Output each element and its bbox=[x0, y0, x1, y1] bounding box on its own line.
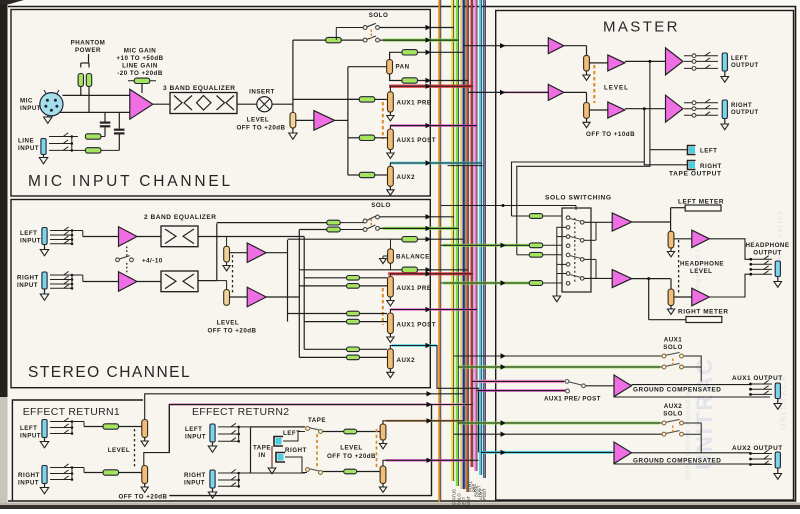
wire ER1 right out elbow bbox=[144, 405, 170, 466]
wire to master right fader bbox=[564, 91, 587, 93]
jack ER2 right input bbox=[210, 470, 215, 488]
page margins bbox=[8, 0, 800, 6]
wire aux2 solo row 2 bbox=[454, 433, 663, 435]
resistor mic aux1 pre feed bbox=[348, 98, 360, 100]
marker pen green aux2 solo row 1 bbox=[459, 422, 660, 425]
svg-text:LEVEL: LEVEL bbox=[108, 447, 130, 454]
fader headphone level right bbox=[670, 279, 672, 289]
wire tape upper to resistor bbox=[323, 431, 344, 433]
jack ER1 right input bbox=[42, 466, 47, 484]
wire stereo aux2 out to bus elbow bbox=[390, 346, 478, 453]
capacitor C2 bbox=[118, 112, 120, 128]
svg-text:EFFECT RETURN2: EFFECT RETURN2 bbox=[192, 406, 289, 418]
switch link dashes stereo solo bbox=[370, 219, 372, 227]
op-amp mic channel amp U2 bbox=[314, 111, 335, 131]
gang link dashed ER2 level bbox=[376, 429, 378, 469]
wire ER2 top row to bus bbox=[432, 404, 473, 406]
svg-text:AUX2 OUTPUT: AUX2 OUTPUT bbox=[732, 445, 783, 452]
wire stereo status row to bus bbox=[380, 216, 454, 218]
ground below stereo left jack bbox=[44, 245, 46, 250]
svg-text:LEFT: LEFT bbox=[185, 426, 202, 433]
bus LEFT pale band bbox=[460, 0, 462, 489]
svg-text:RIGHT: RIGHT bbox=[17, 275, 39, 282]
ground below headphone right fader bbox=[670, 306, 672, 310]
switch mic solo lower bbox=[363, 38, 367, 42]
wire master left to big amp bbox=[625, 60, 666, 62]
EFFECT RETURN2 box bbox=[169, 405, 431, 453]
wire aux1 pre row to switch bbox=[472, 380, 565, 382]
svg-text:3 BAND EQUALIZER: 3 BAND EQUALIZER bbox=[163, 85, 235, 92]
wire to ER2 fader upper bbox=[357, 431, 380, 433]
wire solo row direct bbox=[441, 205, 577, 207]
svg-text:RIGHT: RIGHT bbox=[184, 472, 206, 479]
bus STATUS (yellow) bbox=[451, 0, 453, 481]
svg-text:OUTPUT: OUTPUT bbox=[731, 110, 759, 116]
wire mic aux1 post out to bus bbox=[390, 126, 477, 129]
resistor mic aux1 post feed bbox=[348, 137, 360, 139]
svg-text:AUX1 POST: AUX1 POST bbox=[397, 137, 437, 144]
svg-text:LEFT: LEFT bbox=[20, 425, 37, 432]
fader stereo level right bbox=[224, 290, 230, 306]
marker pen magenta master right input bbox=[500, 91, 548, 93]
gang link dashed (mic aux) bbox=[382, 102, 384, 139]
switch ER1 right contacts bbox=[50, 467, 72, 469]
switch tape lower bbox=[306, 468, 310, 472]
svg-text:LINE GAIN: LINE GAIN bbox=[122, 63, 158, 70]
bus RIGHT (dark/orange) bbox=[466, 0, 468, 492]
jack master left output bbox=[722, 53, 727, 71]
gang link stereo level bbox=[232, 255, 234, 295]
jack tape in right bbox=[276, 453, 285, 463]
wire amp2 out to send node bbox=[335, 119, 348, 121]
svg-text:OFF TO +20dB: OFF TO +20dB bbox=[236, 125, 285, 132]
solo switching contacts bbox=[566, 216, 570, 220]
ground below ER2 right jack bbox=[212, 488, 214, 492]
svg-text:INPUT: INPUT bbox=[18, 480, 39, 487]
op-amp solo right amp bbox=[612, 270, 632, 288]
marker pen red stereo aux1 pre row bbox=[388, 272, 473, 275]
svg-text:SOLO: SOLO bbox=[663, 344, 683, 351]
ground below stereo aux1 post bbox=[389, 334, 391, 338]
ground below mic aux1 post bbox=[389, 150, 391, 154]
svg-text:RIGHT: RIGHT bbox=[285, 447, 307, 454]
wire aux1 solo join bbox=[684, 356, 701, 381]
jack aux2 output contacts bbox=[750, 453, 772, 455]
wire balanced pair to amp bbox=[63, 94, 131, 96]
svg-text:LEFT: LEFT bbox=[731, 56, 748, 62]
fader AUX1 POST (mic) bbox=[388, 129, 394, 150]
svg-text:INPUT: INPUT bbox=[185, 434, 206, 441]
wire solo logic drop bbox=[575, 206, 577, 211]
ground below mic fader bbox=[292, 128, 294, 133]
svg-text:LEVEL: LEVEL bbox=[247, 117, 269, 124]
wire solo box out left bbox=[584, 221, 612, 223]
svg-text:OFF TO +20dB: OFF TO +20dB bbox=[327, 453, 376, 460]
svg-text:AUX1: AUX1 bbox=[664, 337, 683, 344]
wire solo feed (mic) bbox=[293, 39, 326, 41]
wire stereo right row to bus bbox=[418, 269, 469, 271]
svg-text:MIC: MIC bbox=[20, 98, 33, 105]
wire aux2 solo row 1 bbox=[458, 422, 662, 424]
equalizer 2-band left block bbox=[161, 226, 198, 247]
ground below headphone jack bbox=[777, 277, 779, 282]
svg-text:OUTPUT: OUTPUT bbox=[731, 63, 759, 69]
wire mic solo row to bus (green) bbox=[383, 38, 458, 41]
wire phantom feed bbox=[88, 54, 90, 63]
ground below ER1 right jack bbox=[44, 484, 46, 488]
bus SOLO (green) bbox=[456, 0, 458, 486]
op-amp master right in bbox=[548, 84, 564, 100]
switch AUX1 PRE/POST bbox=[565, 380, 569, 384]
svg-text:POST: POST bbox=[482, 488, 487, 500]
svg-text:AUX1 PRE: AUX1 PRE bbox=[397, 285, 432, 292]
svg-text:LEFT: LEFT bbox=[700, 148, 717, 155]
wire headphone right out bbox=[709, 274, 750, 297]
fader ER2 level lower bbox=[380, 466, 386, 484]
wire pan left to LEFT bus bbox=[418, 51, 464, 53]
EFFECT RETURN1 box bbox=[12, 400, 143, 501]
fader AUX1 PRE (mic) bbox=[388, 92, 394, 112]
switch aux2 solo lower bbox=[662, 432, 666, 436]
switch stereo right contacts bbox=[50, 274, 72, 276]
wire aux1 post row to switch bbox=[476, 390, 565, 392]
wire aux1 amp out bbox=[632, 384, 751, 386]
wire tape right jack join bbox=[285, 457, 307, 473]
gang link ER1 level bbox=[134, 429, 136, 468]
ground below right output jack bbox=[724, 119, 726, 125]
insert point bbox=[257, 97, 272, 112]
wire phantom to lines bbox=[80, 87, 82, 96]
ground below ER1 left jack bbox=[44, 438, 46, 442]
svg-text:POWER: POWER bbox=[75, 47, 101, 54]
fader AUX2 (stereo) bbox=[388, 349, 394, 369]
svg-text:OFF TO +20dB: OFF TO +20dB bbox=[207, 328, 256, 335]
junction master right tape tap bbox=[643, 107, 646, 110]
ground below ER2 lower fader bbox=[382, 484, 384, 488]
gang link dashed master level bbox=[593, 65, 595, 103]
solo switching gang dashes bbox=[574, 218, 576, 283]
wire pan bottom out bbox=[390, 74, 403, 81]
marker pen cyan stereo aux2 row bbox=[392, 344, 437, 347]
ground tape in bbox=[271, 446, 273, 468]
ground below ER1 left fader bbox=[144, 438, 146, 442]
wire headphone left out bbox=[709, 239, 750, 259]
wire ER1 left row bbox=[72, 421, 84, 423]
svg-text:HEADPHONE: HEADPHONE bbox=[745, 242, 789, 249]
wire resistor to fader ER1 left bbox=[118, 426, 142, 428]
potentiometer BALANCE bbox=[388, 249, 394, 263]
junction master left tape tap bbox=[648, 60, 651, 63]
wire ER2 collector bbox=[250, 427, 252, 473]
switch stereo left contacts bbox=[50, 230, 72, 232]
bus line (unlabelled rail) bbox=[438, 0, 440, 502]
wire stereo left to amp bbox=[82, 231, 84, 237]
ground balance wiper bbox=[383, 255, 388, 257]
ground below stereo level left bbox=[226, 262, 228, 266]
op-amp master left output amp bbox=[666, 48, 684, 75]
switch aux1 solo upper bbox=[662, 354, 666, 358]
svg-text:INPUT: INPUT bbox=[20, 105, 41, 112]
wire fader to stereo amp4 bbox=[230, 296, 248, 298]
switch ER2 left contacts bbox=[218, 426, 239, 428]
wire solo left to meter node bbox=[632, 221, 671, 223]
wire to ER2 fader lower bbox=[357, 471, 380, 473]
switch aux1 solo lower bbox=[662, 365, 666, 369]
switch link dashed tape bbox=[316, 434, 318, 467]
svg-text:OUTPUT: OUTPUT bbox=[753, 250, 781, 257]
switch ER2 right contacts bbox=[218, 472, 239, 474]
wire ER1 right row bbox=[72, 467, 84, 469]
resistor ER2 level upper bbox=[344, 429, 357, 434]
svg-text:EFFECT RETURN1: EFFECT RETURN1 bbox=[23, 406, 120, 418]
svg-text:SOLO: SOLO bbox=[663, 411, 683, 418]
svg-text:LEVEL: LEVEL bbox=[690, 268, 712, 275]
wire ER2 lower out to bus bbox=[383, 460, 479, 466]
jack stereo left input bbox=[42, 228, 47, 245]
wire aux2 ground sense bbox=[614, 463, 770, 465]
wire send distribution vertical bbox=[347, 67, 349, 175]
op-amp master left post bbox=[608, 55, 625, 71]
wire to master left fader bbox=[564, 45, 587, 47]
svg-text:LEVEL: LEVEL bbox=[217, 320, 239, 327]
marker pen magenta aux1 post row (master) bbox=[478, 389, 566, 392]
svg-text:TAPE OUTPUT: TAPE OUTPUT bbox=[669, 171, 722, 178]
resistor stereo aux1 pre feed lower bbox=[299, 285, 347, 287]
svg-text:AUX1 POST: AUX1 POST bbox=[397, 322, 437, 329]
resistor phantom right bbox=[86, 74, 91, 87]
svg-text:2 BAND EQUALIZER: 2 BAND EQUALIZER bbox=[144, 214, 216, 221]
wire solo ground stubs bbox=[556, 227, 558, 296]
op-amp mic input amp U1 bbox=[130, 89, 153, 119]
fader AUX1 PRE (stereo) bbox=[388, 277, 394, 298]
marker pen cyan mic aux2 row bbox=[390, 162, 481, 165]
wire master right to big amp bbox=[625, 108, 666, 110]
svg-text:MIC INPUT CHANNEL: MIC INPUT CHANNEL bbox=[28, 173, 233, 190]
wire node up to solo feed bbox=[292, 40, 294, 112]
jack tape output right bbox=[688, 161, 696, 170]
wire prepost to amp bbox=[586, 385, 614, 387]
svg-text:UNITRACK: UNITRACK bbox=[778, 374, 788, 430]
wire stereo pre collector bbox=[303, 237, 305, 350]
fader stereo level left bbox=[224, 246, 230, 262]
svg-text:SOLO: SOLO bbox=[371, 202, 391, 209]
wire tape right feed bbox=[512, 109, 645, 216]
wire aux1 solo row 2 bbox=[458, 366, 662, 368]
fader ER1 level right bbox=[142, 466, 148, 484]
ground below ER2 upper fader bbox=[382, 440, 384, 444]
wire EQ2 out riser bbox=[198, 280, 217, 282]
switch tape upper bbox=[306, 427, 310, 431]
scan edge left strip bbox=[0, 0, 8, 397]
svg-text:TAPE: TAPE bbox=[253, 445, 271, 452]
switch link dashed aux1 solo bbox=[672, 359, 674, 366]
op-amp stereo post amp left bbox=[247, 243, 266, 263]
fader headphone level left bbox=[668, 231, 674, 248]
jack ER1 left input bbox=[42, 420, 47, 438]
op-amp aux2 ground compensated bbox=[614, 442, 632, 464]
resistor stereo aux2 feed upper bbox=[304, 348, 347, 350]
svg-text:OFF TO +20dB: OFF TO +20dB bbox=[118, 494, 167, 501]
fader ER1 level left bbox=[142, 420, 148, 438]
scan mark top-left bbox=[0, 0, 24, 5]
bus rail (navy thin) bbox=[483, 0, 485, 478]
MASTER box bbox=[496, 11, 794, 501]
wire solo box out right bbox=[584, 277, 612, 279]
op-amp master right post bbox=[608, 102, 625, 118]
bus AUX1 POST (pink) bbox=[474, 0, 476, 471]
fader AUX1 POST (stereo) bbox=[388, 313, 394, 334]
svg-text:OFF TO +10dB: OFF TO +10dB bbox=[586, 131, 635, 138]
ground below headphone left fader bbox=[670, 248, 672, 252]
wire stereo aux1 pre out to bus bbox=[390, 274, 473, 277]
svg-text:BALANCE: BALANCE bbox=[396, 254, 430, 261]
svg-text:INPUT: INPUT bbox=[184, 480, 205, 487]
op-amp solo left amp bbox=[612, 213, 632, 231]
capacitor C1 bbox=[104, 112, 106, 121]
wire line contacts bbox=[71, 137, 73, 151]
jack stereo right input bbox=[42, 272, 47, 289]
fader master level left bbox=[584, 55, 590, 71]
ground below stereo aux2 bbox=[389, 369, 391, 373]
switch gain +4/-10 bbox=[116, 258, 120, 262]
resistor line lower bbox=[85, 148, 101, 153]
fader AUX2 (mic) bbox=[388, 166, 394, 186]
resistor phantom left bbox=[78, 74, 83, 87]
wire tape left feed bbox=[517, 61, 650, 254]
ground below stereo right jack bbox=[44, 289, 46, 294]
jack aux2 output bbox=[775, 452, 780, 468]
switch link dashes mic solo bbox=[370, 30, 372, 39]
svg-text:AUX1 PRE/ POST: AUX1 PRE/ POST bbox=[544, 396, 601, 403]
wire mic aux2 out to bus bbox=[390, 163, 481, 166]
resistor stereo aux1 post feed lower bbox=[304, 321, 347, 323]
potentiometer PAN bbox=[387, 60, 393, 75]
resistor stereo aux1 post feed upper bbox=[288, 313, 348, 315]
wire stereo right out row bbox=[299, 269, 403, 271]
svg-text:SOLO: SOLO bbox=[369, 12, 389, 19]
ground solo switching rail bbox=[553, 296, 561, 302]
ground below mic aux1 pre bbox=[389, 112, 391, 116]
marker pen orange ER2 tape out row bbox=[386, 420, 460, 422]
wire solo right to node bbox=[632, 278, 671, 280]
fader ER2 level upper bbox=[380, 424, 386, 440]
wire stereo post right collector bbox=[266, 296, 299, 298]
ground below ER1 right fader bbox=[144, 484, 146, 488]
svg-text:-20 TO +20dB: -20 TO +20dB bbox=[117, 70, 163, 77]
resistor stereo left out bbox=[402, 237, 418, 242]
ground below mic aux2 bbox=[389, 186, 391, 190]
ground below ER2 left jack bbox=[212, 442, 214, 446]
resistor ER2 level lower bbox=[344, 469, 357, 474]
wire stereo right amp to EQ2 bbox=[137, 281, 161, 283]
resistor stereo solo upper bbox=[327, 220, 341, 225]
svg-text:RIGHT: RIGHT bbox=[700, 163, 722, 170]
ground below left output jack bbox=[724, 71, 726, 77]
op-amp headphone right bbox=[692, 288, 710, 306]
jack master right output contacts bbox=[684, 102, 718, 104]
marker pen green solo row 3 bbox=[443, 282, 529, 285]
resistor stereo right out bbox=[402, 267, 418, 272]
wire master right input row bbox=[468, 91, 548, 93]
jack master left output contacts bbox=[684, 55, 718, 57]
ground below aux2 jack bbox=[777, 468, 779, 474]
svg-text:RIGHT METER: RIGHT METER bbox=[678, 309, 729, 316]
wire aux2 row to amp bbox=[481, 451, 614, 453]
svg-text:PHANTOM: PHANTOM bbox=[71, 40, 106, 47]
wire gain to amp bbox=[141, 84, 143, 94]
wire tape left into solo box bbox=[517, 254, 529, 256]
wire solo row 3 bbox=[441, 282, 530, 284]
switch ER1 left contacts bbox=[50, 421, 72, 423]
gang link dashed (stereo aux) bbox=[382, 288, 384, 325]
wire pan feed bbox=[348, 66, 387, 68]
connector XLR mic input bbox=[40, 93, 63, 116]
wire aux2 solo join bbox=[684, 423, 701, 453]
op-amp master right output amp bbox=[666, 95, 684, 122]
ground below master right fader bbox=[586, 118, 588, 122]
wire stereo left row to bus bbox=[418, 238, 464, 240]
resistor ER1 right level bbox=[103, 470, 119, 475]
svg-text:HEADPHONE: HEADPHONE bbox=[680, 261, 724, 268]
wire mic status row to bus bbox=[380, 27, 454, 29]
wire tape left jack branch bbox=[650, 149, 688, 151]
wire aux1 solo row 1 bbox=[454, 355, 663, 357]
wire fader to stereo amp3 bbox=[230, 252, 248, 254]
wire insert to level node bbox=[272, 103, 293, 105]
svg-text:RIGHT: RIGHT bbox=[18, 472, 40, 479]
svg-text:INSERT: INSERT bbox=[249, 89, 275, 96]
switch link dotted +4/-10 bbox=[126, 247, 128, 257]
wire master left fader out bbox=[589, 62, 607, 64]
svg-text:INPUT: INPUT bbox=[18, 145, 39, 152]
wire amp to EQ bbox=[153, 103, 170, 105]
meter left bbox=[685, 205, 721, 211]
jack line input bbox=[41, 139, 46, 155]
wire stereo solo upper feed bbox=[217, 222, 326, 224]
svg-text:INPUT: INPUT bbox=[20, 433, 41, 440]
wire ER2 right row to switch bbox=[251, 472, 306, 474]
svg-text:IN: IN bbox=[258, 452, 265, 459]
ground below master left fader bbox=[586, 71, 588, 75]
wire master right fader out bbox=[589, 109, 607, 111]
wire stereo post left collector bbox=[266, 252, 287, 254]
wire tape right jack branch bbox=[644, 162, 688, 165]
wire headphone right tap bbox=[674, 296, 692, 298]
svg-text:RIGHT: RIGHT bbox=[466, 496, 471, 509]
jack master right output bbox=[722, 100, 727, 119]
STEREO CHANNEL box bbox=[11, 200, 430, 388]
wire pan top out bbox=[390, 52, 403, 59]
svg-text:PAN: PAN bbox=[396, 64, 410, 71]
wire aux1 ground sense bbox=[614, 396, 770, 398]
wire stereo left amp to EQ1 bbox=[137, 236, 161, 238]
svg-text:AUX2: AUX2 bbox=[397, 174, 416, 181]
fader mic level bbox=[290, 113, 296, 129]
svg-text:RIGHT: RIGHT bbox=[731, 103, 752, 109]
wire ER2 left row to tape switch bbox=[251, 426, 306, 428]
resistor ER1 left level bbox=[103, 424, 119, 429]
wire pan right to RIGHT bus bbox=[418, 80, 469, 82]
marker pen green aux1 solo row 2 bbox=[459, 366, 660, 369]
wire fader to amp2 bbox=[296, 119, 314, 121]
marker pen magenta stereo aux1 post row bbox=[390, 308, 477, 311]
switch mic solo upper bbox=[363, 26, 367, 30]
wire master left input row bbox=[464, 45, 549, 47]
svg-text:LEVEL: LEVEL bbox=[340, 445, 362, 452]
wire ER1 left out to bus bbox=[145, 394, 464, 420]
wire tape right into solo box bbox=[512, 215, 530, 217]
wire stereo solo lower feed bbox=[299, 229, 327, 231]
